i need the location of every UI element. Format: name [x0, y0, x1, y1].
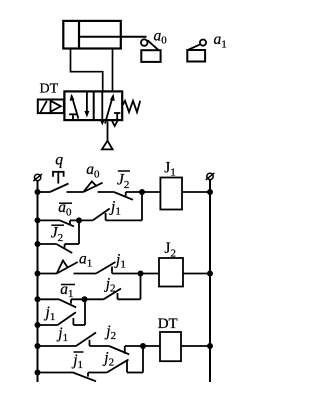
limit switch a1 box — [187, 50, 205, 62]
cylinder rod — [79, 36, 147, 38]
valve right exhaust notch — [112, 121, 118, 126]
valve right blocked port — [114, 113, 120, 120]
contact J1bar (NC) — [73, 373, 96, 382]
svg-text:j1: j1 — [56, 325, 68, 344]
svg-text:q: q — [55, 152, 63, 169]
coil J2 — [159, 258, 183, 287]
branch2 wire left — [38, 219, 61, 221]
node branch5 rail dot — [35, 296, 41, 302]
branch2 riser — [141, 192, 143, 220]
rung3 wire left — [38, 345, 77, 347]
node branch6 rail dot — [35, 322, 41, 328]
contact j2 (rung3 NC) — [109, 346, 129, 354]
branch8 wire left — [38, 372, 74, 374]
limit switch a1 lever — [187, 44, 200, 50]
branch2 wire a0bar to node — [70, 219, 93, 221]
svg-text:DT: DT — [40, 82, 59, 97]
branch6 wire to riser — [73, 324, 85, 326]
rung3 wire j2 to coil — [125, 345, 160, 347]
valve right arrow diagonal — [105, 94, 115, 124]
valve V body — [64, 91, 122, 120]
right rail terminal circle — [206, 173, 215, 180]
rung2 wire left — [38, 273, 57, 275]
rung1 wire J2bar to coil — [126, 191, 161, 193]
branch5 wire a1bar to node — [71, 298, 104, 300]
node branch2/branch3 — [76, 217, 82, 223]
svg-text:J2: J2 — [164, 240, 176, 259]
contact a1bar (NC) — [59, 299, 76, 307]
contact j2 (branch5) — [104, 289, 122, 300]
limit switch a0 roller — [141, 39, 148, 46]
branch6 wire left — [38, 324, 58, 326]
branch8 wire to riser — [127, 372, 143, 374]
branch3 riser — [78, 220, 80, 244]
label a1bar — [60, 281, 75, 300]
solenoid triangle — [51, 101, 61, 112]
wire cylinder left port to valve — [71, 49, 103, 92]
supply line — [107, 122, 109, 141]
branch2 wire to riser — [106, 219, 142, 221]
svg-text:j1: j1 — [114, 252, 126, 271]
left rail — [37, 181, 39, 382]
branch5 wire left — [38, 298, 60, 300]
rung1 wire q to a0 — [67, 191, 84, 193]
svg-text:a0: a0 — [86, 161, 100, 180]
node rung3 right rail — [207, 343, 213, 349]
branch8 wire J1bar to j2 — [88, 372, 107, 374]
node rung3/branch8 — [140, 343, 146, 349]
solenoid slash — [40, 101, 46, 113]
node branch8 rail dot — [35, 370, 41, 376]
contact J2bar (NC) — [114, 192, 133, 200]
svg-text:J2: J2 — [51, 225, 63, 244]
contact j1 (branch2) — [93, 209, 110, 221]
rung2 wire coil to rail — [183, 273, 210, 275]
node branch2 rail dot — [35, 217, 41, 223]
rung2 wire j1 to coil — [112, 273, 159, 275]
coil DT — [160, 332, 181, 361]
node rung2/branch5 — [138, 271, 144, 277]
rung3 wire coil to rail — [181, 345, 210, 347]
right rail — [209, 180, 211, 382]
svg-text:j2: j2 — [104, 323, 116, 342]
label J2bar (branch3) — [51, 225, 64, 244]
valve left arrow diagonal — [70, 94, 79, 119]
contact a1 triangle — [57, 261, 68, 274]
svg-text:j1: j1 — [71, 352, 83, 371]
node rung1 right rail — [207, 189, 213, 195]
node rung2 rail dot — [35, 271, 41, 277]
rung1 wire left — [38, 191, 50, 193]
solenoid DT box — [38, 100, 64, 114]
label J2bar (rung1) — [117, 171, 130, 191]
valve spring W — [123, 101, 141, 112]
rung1 wire a0 to J2bar — [98, 191, 114, 193]
svg-text:j2: j2 — [102, 350, 114, 369]
limit switch a0 box — [141, 50, 160, 62]
svg-text:a0: a0 — [58, 199, 72, 218]
node rung3 rail dot — [35, 343, 41, 349]
source triangle — [102, 141, 113, 150]
contact j1 (branch6) — [58, 312, 76, 325]
node branch2 left rail — [35, 189, 41, 195]
svg-text:a1: a1 — [79, 251, 92, 270]
contact a0bar (NC) — [60, 220, 74, 226]
node rung2 right rail — [207, 271, 213, 277]
contact a0 blade — [83, 183, 102, 192]
contact j1 (rung3) — [76, 333, 96, 347]
rung3 wire j1 to j2 — [90, 345, 110, 347]
contact a0 triangle — [83, 182, 96, 193]
contact j2 (branch8) — [107, 360, 129, 373]
valve right arrow down — [100, 92, 105, 126]
cylinder piston — [78, 21, 80, 49]
contact J2bar (branch3 NC) — [56, 244, 72, 253]
pushbutton q cap — [53, 172, 64, 184]
branch5 riser — [140, 274, 142, 300]
svg-text:j1: j1 — [109, 199, 121, 218]
svg-text:j1: j1 — [44, 304, 56, 323]
contact a1 blade — [57, 262, 78, 274]
limit switch a1 roller — [200, 40, 206, 46]
branch8 riser — [142, 346, 144, 373]
svg-text:a0: a0 — [154, 27, 168, 46]
coil J1 — [160, 178, 182, 210]
limit switch a0 lever — [147, 40, 159, 50]
node branch3 rail dot — [35, 241, 41, 247]
branch6 riser — [84, 299, 86, 325]
branch3 wire left — [38, 243, 57, 245]
contact q blade — [50, 184, 69, 193]
rung2 wire a1 to j1 — [74, 273, 97, 275]
node rung1/branch2 — [139, 189, 145, 195]
node branch5/branch6 — [82, 296, 88, 302]
valve divider — [93, 91, 95, 120]
svg-text:J1: J1 — [164, 159, 176, 178]
svg-text:a1: a1 — [214, 31, 227, 50]
rung1 wire coil to rail — [182, 191, 210, 193]
valve left arrow down — [84, 92, 89, 118]
cylinder C barrel — [63, 21, 121, 49]
svg-text:J2: J2 — [117, 172, 129, 191]
wire cylinder right port to valve — [112, 49, 114, 92]
branch5 wire to riser — [118, 298, 141, 300]
left rail terminal circle — [33, 174, 42, 181]
label a0bar — [58, 199, 72, 218]
svg-text:DT: DT — [158, 316, 178, 332]
valve left blocked port — [69, 114, 77, 120]
contact j1 (rung2) — [96, 262, 116, 274]
branch3 wire to riser — [65, 243, 79, 245]
svg-text:j2: j2 — [104, 276, 116, 295]
label J1bar — [71, 352, 83, 371]
